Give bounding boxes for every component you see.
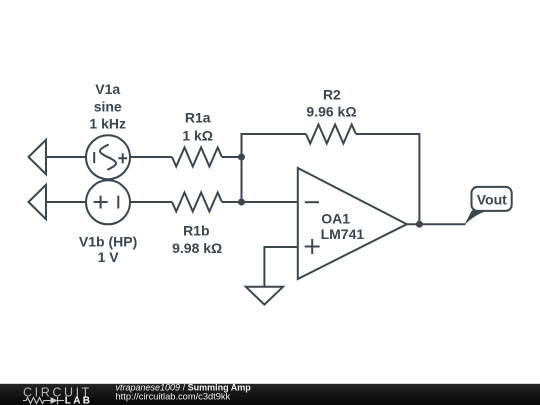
resistor R1b — [172, 193, 222, 212]
output node junction dot — [416, 221, 423, 228]
svg-text:R2: R2 — [323, 86, 341, 102]
resistor R1a — [172, 148, 222, 167]
svg-text:9.98 kΩ: 9.98 kΩ — [172, 240, 222, 256]
input terminal flag (to V1b) — [29, 185, 47, 219]
svg-text:R1b: R1b — [183, 223, 209, 239]
wire ground to op-amp non-inverting input — [264, 247, 297, 287]
wire R1b to node B — [222, 201, 242, 203]
svg-text:LM741: LM741 — [321, 226, 365, 242]
V1b minus bar — [117, 196, 119, 209]
svg-text:V1a: V1a — [95, 81, 120, 97]
wire R1a to node A — [222, 156, 242, 158]
svg-text:http://circuitlab.com/c3dt9kk: http://circuitlab.com/c3dt9kk — [116, 392, 231, 402]
wire terminal2 to V1b — [46, 201, 86, 203]
resistor R2 — [306, 125, 356, 144]
op-amp U1 triangle — [298, 168, 407, 279]
Vout flag tail — [464, 210, 488, 225]
node B junction dot — [238, 199, 245, 206]
wire V1b to R1b — [130, 201, 172, 203]
V1a minus bar — [93, 152, 95, 163]
svg-text:1 V: 1 V — [98, 249, 120, 265]
wire node B up to feedback — [242, 134, 307, 202]
output wire — [407, 223, 466, 225]
svg-text:9.96 kΩ: 9.96 kΩ — [306, 104, 356, 120]
wire terminal1 to V1a — [46, 156, 86, 158]
voltage source V1b — [86, 180, 130, 224]
wire node B to op-amp inverting input — [242, 201, 298, 203]
svg-text:OA1: OA1 — [321, 211, 350, 227]
wire V1a to R1a — [130, 156, 172, 158]
footer bar — [0, 384, 540, 405]
node A junction dot — [238, 154, 245, 161]
V1b plus sign — [94, 196, 108, 209]
svg-text:R1a: R1a — [185, 109, 211, 125]
op-amp plus marker — [305, 239, 320, 254]
logo resistor-diode squiggle — [23, 397, 64, 404]
svg-text:1 kΩ: 1 kΩ — [182, 127, 213, 143]
V1a sine glyph — [100, 145, 116, 170]
svg-text:V1b (HP): V1b (HP) — [79, 233, 137, 249]
V1a plus sign — [118, 153, 127, 163]
Vout flag box — [472, 187, 512, 211]
svg-text:1 kHz: 1 kHz — [89, 115, 126, 131]
svg-text:LAB: LAB — [65, 395, 92, 405]
ground symbol — [246, 287, 283, 305]
svg-text:Vout: Vout — [477, 192, 507, 208]
wire R2 to output node — [356, 134, 420, 224]
logo diode triangle — [51, 397, 58, 404]
voltage source V1a (sine) — [86, 135, 130, 179]
svg-text:sine: sine — [94, 99, 122, 115]
op-amp minus marker — [305, 201, 319, 203]
input terminal flag (to V1a) — [29, 140, 47, 174]
